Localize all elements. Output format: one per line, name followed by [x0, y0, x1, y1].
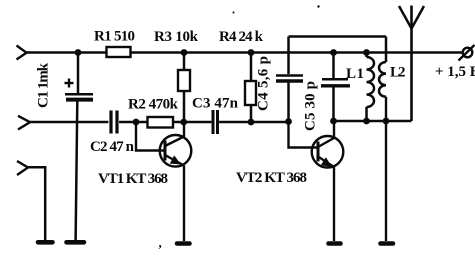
svg-text:,: ,	[159, 235, 162, 250]
svg-text:C3 47n: C3 47n	[192, 96, 239, 112]
svg-text:C4 5,6 p: C4 5,6 p	[256, 56, 272, 111]
svg-text:C2 47 n: C2 47 n	[90, 139, 135, 155]
svg-text:C1 1mk: C1 1mk	[36, 62, 52, 108]
svg-text:R4 24 k: R4 24 k	[219, 29, 264, 45]
svg-text:VT2 KT 368: VT2 KT 368	[236, 170, 307, 186]
svg-text:R3 10k: R3 10k	[154, 29, 199, 45]
svg-text:L1: L1	[346, 66, 364, 82]
svg-text:+ 1,5 В: + 1,5 В	[435, 64, 475, 80]
svg-text:VT1 KT 368: VT1 KT 368	[98, 171, 168, 187]
svg-text:C5 30 p: C5 30 p	[303, 81, 319, 131]
svg-text:R1 510: R1 510	[94, 29, 135, 45]
svg-text:L2: L2	[390, 65, 406, 81]
svg-text:R2 470k: R2 470k	[128, 97, 179, 113]
